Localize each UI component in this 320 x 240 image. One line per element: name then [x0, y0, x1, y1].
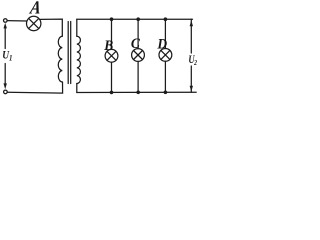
wire primary bottom lead	[7, 82, 62, 93]
lamp C	[132, 49, 145, 62]
lamp D	[159, 49, 172, 62]
junction dot top D	[164, 17, 168, 21]
wire top-left horizontal	[7, 20, 27, 22]
branch D wire upper	[164, 19, 166, 48]
branch D wire lower	[164, 61, 166, 92]
junction dot top B	[110, 17, 114, 21]
lamp A	[27, 16, 41, 30]
junction dot bottom C	[136, 91, 140, 95]
wire secondary bottom lead	[76, 84, 78, 93]
svg-text:U1: U1	[2, 50, 12, 63]
wire secondary top lead	[76, 19, 78, 36]
U2 right edge lower with arrow down	[190, 66, 192, 92]
wire top bus	[77, 18, 193, 20]
U1 arrowhead up	[4, 23, 7, 29]
primary coil L1	[58, 36, 62, 82]
branch C wire lower	[137, 61, 139, 92]
svg-text:B: B	[103, 37, 113, 54]
terminal T2 bottom-left	[4, 90, 8, 94]
junction dot top C	[136, 17, 140, 21]
branch C wire upper	[137, 19, 139, 48]
svg-text:D: D	[156, 36, 167, 53]
U1 arrow line lower	[4, 64, 6, 85]
U1 arrow line upper	[4, 28, 6, 49]
junction dot bottom D	[164, 91, 168, 95]
svg-text:A: A	[28, 0, 42, 18]
terminal T1 top-left	[4, 19, 8, 23]
U1 arrowhead down	[4, 83, 7, 89]
wire lamp A to transformer	[40, 19, 62, 36]
wire bottom bus	[77, 91, 196, 93]
svg-text:C: C	[131, 35, 140, 52]
branch B wire lower	[111, 62, 113, 92]
U2 right edge upper with arrow up	[190, 19, 192, 53]
svg-text:U2: U2	[188, 54, 197, 67]
lamp B	[105, 49, 118, 62]
transformer core	[67, 22, 69, 84]
secondary coil L2	[77, 36, 81, 83]
branch B wire upper	[111, 19, 113, 49]
junction dot bottom B	[110, 91, 114, 95]
